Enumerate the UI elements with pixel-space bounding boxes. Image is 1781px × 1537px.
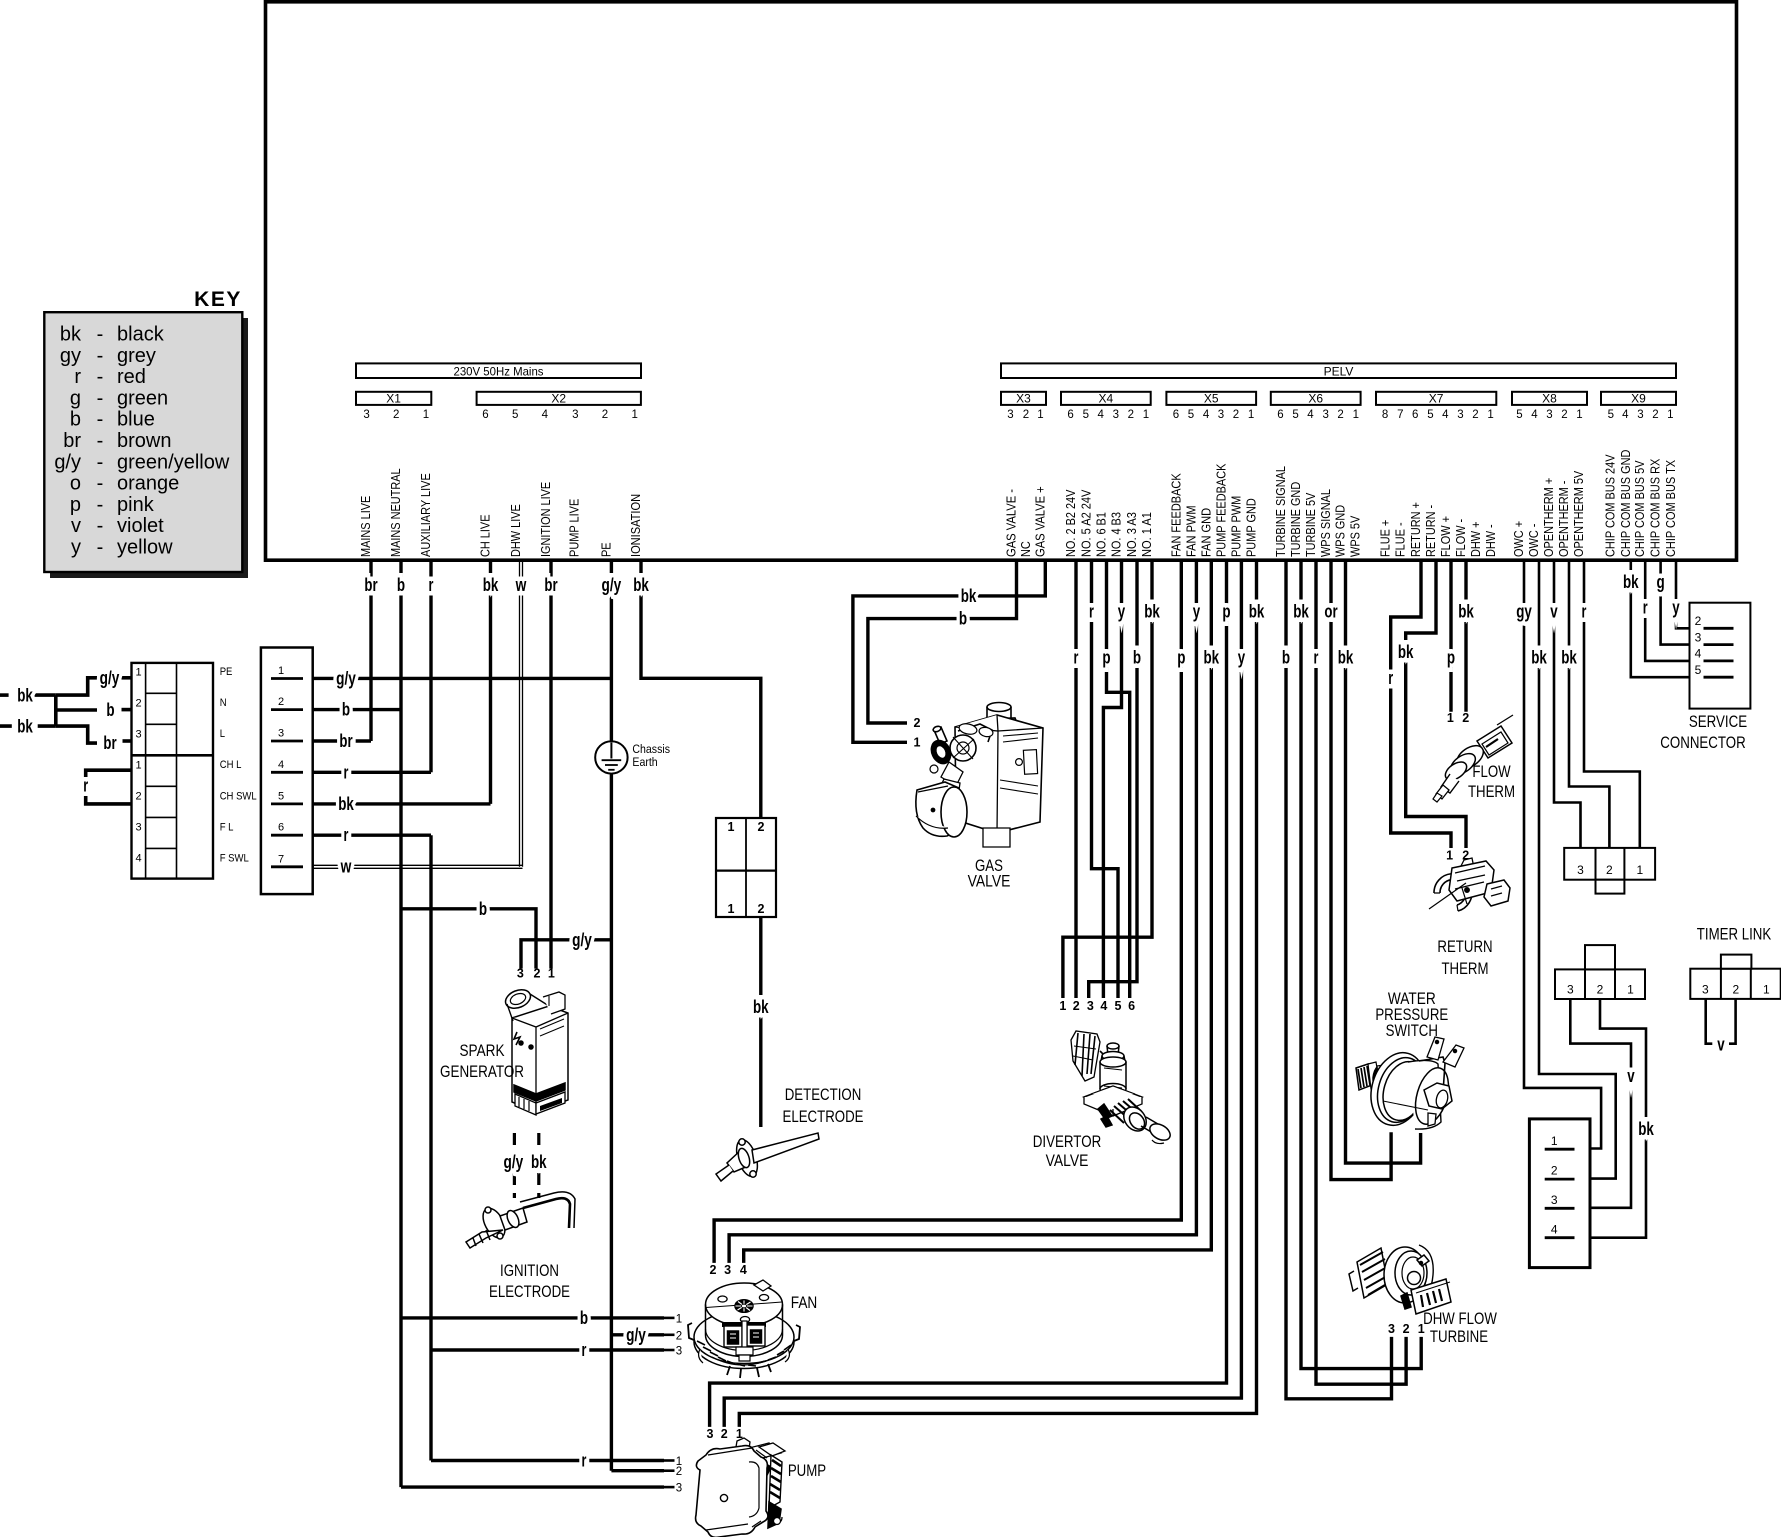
- PCB control board outline: [266, 2, 1737, 560]
- svg-text:3: 3: [1087, 999, 1094, 1013]
- svg-text:1: 1: [1576, 409, 1582, 421]
- wire or WPS SIGNAL: [1331, 560, 1391, 1180]
- svg-text:X1: X1: [386, 392, 401, 406]
- svg-text:5: 5: [1427, 409, 1433, 421]
- svg-text:bk: bk: [1623, 571, 1639, 592]
- svg-text:p: p: [1177, 647, 1185, 668]
- svg-text:5: 5: [512, 409, 518, 421]
- svg-text:2: 2: [1597, 983, 1604, 997]
- svg-text:4: 4: [740, 1263, 747, 1277]
- svg-text:6: 6: [1277, 409, 1283, 421]
- svg-text:6: 6: [1412, 409, 1418, 421]
- detection electrode drawing: [716, 1133, 819, 1181]
- connector X7 box: [1376, 392, 1496, 405]
- svg-text:5: 5: [1695, 663, 1702, 677]
- svg-text:2: 2: [914, 716, 921, 730]
- wire pin6 r to AUXILIARY LIVE lower: [313, 834, 431, 837]
- svg-text:p: p: [1222, 601, 1230, 622]
- svg-text:2: 2: [1551, 1164, 1558, 1178]
- svg-text:SERVICE: SERVICE: [1689, 712, 1747, 731]
- svg-text:FAN PWM: FAN PWM: [1183, 505, 1198, 557]
- svg-text:r: r: [1074, 647, 1079, 668]
- svg-text:bk: bk: [17, 685, 33, 706]
- CH room-stat link wire r: [86, 770, 132, 804]
- svg-text:ELECTRODE: ELECTRODE: [489, 1282, 570, 1301]
- wire p FAN FEEDBACK to fan pin 2: [714, 560, 1181, 1263]
- svg-text:r: r: [83, 775, 88, 796]
- svg-text:2: 2: [1462, 711, 1469, 725]
- svg-text:WPS SIGNAL: WPS SIGNAL: [1318, 489, 1333, 557]
- svg-text:2: 2: [135, 698, 141, 710]
- svg-text:5: 5: [1608, 409, 1614, 421]
- svg-text:CONNECTOR: CONNECTOR: [1660, 733, 1745, 752]
- svg-text:g/y: g/y: [572, 929, 592, 950]
- wire bk CHIP COM BUS GND to service pin 5: [1631, 560, 1704, 677]
- svg-text:y: y: [1672, 597, 1680, 618]
- svg-text:2: 2: [1606, 863, 1613, 877]
- wire bk room stat pin 2 to 4-pin connector pin 4: [1590, 999, 1646, 1238]
- svg-text:NO. 2 B2 24V: NO. 2 B2 24V: [1063, 489, 1078, 557]
- svg-text:THERM: THERM: [1441, 959, 1488, 978]
- wire r AUXILIARY LIVE lower run: [429, 835, 432, 1460]
- svg-text:b: b: [1133, 647, 1141, 668]
- svg-text:blue: blue: [117, 409, 155, 431]
- wire r TURBINE 5V to turbine pin 2: [1316, 560, 1406, 1384]
- detection electrode connector box: [716, 818, 776, 917]
- svg-text:FLUE +: FLUE +: [1378, 520, 1393, 557]
- mains supply cable bk wires junction: [0, 693, 9, 697]
- svg-text:b: b: [479, 898, 487, 919]
- wire pin7 w to DHW LIVE (white, double line): [313, 864, 523, 866]
- svg-text:bk: bk: [1561, 647, 1577, 668]
- svg-text:X6: X6: [1308, 392, 1323, 406]
- svg-text:GAS VALVE +: GAS VALVE +: [1032, 486, 1047, 557]
- svg-text:THERM: THERM: [1468, 782, 1515, 801]
- svg-text:FAN GND: FAN GND: [1198, 508, 1213, 557]
- svg-text:2: 2: [1128, 409, 1134, 421]
- wire g/y PE lower (to spark, fan, pump): [610, 774, 613, 1471]
- svg-text:FAN: FAN: [791, 1293, 818, 1312]
- svg-text:5: 5: [1188, 409, 1194, 421]
- svg-text:FLOW -: FLOW -: [1453, 519, 1468, 557]
- wire p FLOW+ to flow therm pin 1: [1449, 560, 1452, 712]
- svg-text:PE: PE: [220, 666, 233, 678]
- 7-way mains connector: [261, 648, 313, 895]
- svg-text:DETECTION: DETECTION: [785, 1085, 862, 1104]
- svg-text:g: g: [1657, 571, 1665, 592]
- timer link connector: [1690, 969, 1780, 999]
- svg-text:SPARK: SPARK: [460, 1041, 506, 1060]
- wire b NO.3 A3 to divertor pin 3: [1089, 560, 1137, 998]
- connector X6 box: [1271, 392, 1361, 405]
- wire r CHIP COM BUS 5V to service pin 4: [1645, 560, 1703, 661]
- wire b MAINS NEUTRAL (to spark gen, fan, pump): [399, 560, 402, 1487]
- svg-text:IGNITION LIVE: IGNITION LIVE: [538, 482, 553, 557]
- svg-text:4: 4: [1100, 999, 1107, 1013]
- svg-text:1: 1: [728, 902, 735, 916]
- svg-text:g/y: g/y: [626, 1324, 646, 1345]
- svg-text:-: -: [97, 324, 104, 346]
- svg-text:SWITCH: SWITCH: [1386, 1021, 1438, 1040]
- svg-text:br: br: [103, 732, 116, 753]
- svg-text:3: 3: [707, 1427, 714, 1441]
- svg-text:2: 2: [758, 820, 765, 834]
- wire g CHIP COM BUS RX to service pin 3: [1661, 560, 1704, 645]
- svg-text:bk: bk: [1398, 641, 1414, 662]
- svg-text:CHIP COM BUS 5V: CHIP COM BUS 5V: [1632, 460, 1647, 557]
- svg-text:7: 7: [1397, 409, 1403, 421]
- svg-text:4: 4: [135, 853, 141, 865]
- svg-text:NO. 1 A1: NO. 1 A1: [1139, 512, 1154, 557]
- svg-text:1: 1: [1487, 409, 1493, 421]
- svg-text:g/y: g/y: [504, 1151, 524, 1172]
- wire b to fan pin 1: [401, 1316, 664, 1319]
- svg-text:DHW LIVE: DHW LIVE: [508, 504, 523, 557]
- svg-text:1: 1: [548, 967, 555, 981]
- svg-text:CHIP COM BUS 24V: CHIP COM BUS 24V: [1602, 454, 1617, 557]
- svg-text:r: r: [1582, 601, 1587, 622]
- svg-text:bk: bk: [961, 585, 977, 606]
- ignition electrode drawing: [466, 1192, 575, 1248]
- return therm drawing: [1429, 858, 1510, 911]
- svg-text:3: 3: [1702, 983, 1709, 997]
- svg-text:NC: NC: [1018, 541, 1033, 557]
- wire gy OWC+ to 4-pin connector pin 1: [1524, 560, 1601, 1149]
- svg-text:1: 1: [1353, 409, 1359, 421]
- svg-text:v: v: [1717, 1034, 1725, 1055]
- svg-text:1: 1: [278, 665, 284, 677]
- svg-text:bk: bk: [1458, 601, 1474, 622]
- wire y PUMP PWM to pump pin 2: [724, 560, 1241, 1427]
- svg-text:v: v: [1627, 1065, 1635, 1086]
- svg-text:2: 2: [135, 791, 141, 803]
- wire bk FLOW- to flow therm pin 2: [1464, 560, 1467, 712]
- svg-text:g/y: g/y: [100, 667, 120, 688]
- pump left pin stubs and numbers: [664, 1459, 675, 1462]
- svg-text:1: 1: [1763, 983, 1770, 997]
- svg-text:GAS VALVE -: GAS VALVE -: [1004, 489, 1019, 557]
- DHW flow turbine drawing: [1349, 1245, 1451, 1314]
- wire br MAINS LIVE: [369, 560, 372, 741]
- svg-text:DHW -: DHW -: [1483, 524, 1498, 557]
- opentherm plug tab: [1596, 880, 1625, 894]
- svg-text:3: 3: [1322, 409, 1328, 421]
- svg-text:p: p: [70, 494, 81, 516]
- svg-text:2: 2: [1233, 409, 1239, 421]
- 4-pin OWC connector box: [1529, 1119, 1590, 1268]
- wire b to pump pin 3: [401, 1485, 664, 1488]
- svg-text:L: L: [220, 728, 225, 740]
- wire b to spark generator pin 2: [401, 909, 536, 969]
- svg-text:OPENTHERM +: OPENTHERM +: [1541, 478, 1556, 557]
- wire b GAS VALVE - to pin 2: [868, 560, 1017, 723]
- svg-text:8: 8: [1382, 409, 1388, 421]
- svg-text:y: y: [1193, 601, 1201, 622]
- svg-text:1: 1: [1248, 409, 1254, 421]
- svg-text:pink: pink: [117, 494, 155, 516]
- svg-text:2: 2: [710, 1263, 717, 1277]
- svg-text:o: o: [70, 473, 81, 495]
- svg-text:PUMP GND: PUMP GND: [1244, 498, 1259, 557]
- wire to PE terminal g/y: [56, 678, 97, 695]
- svg-text:KEY: KEY: [194, 288, 242, 311]
- wire p PUMP FEEDBACK to pump pin 3: [710, 560, 1227, 1427]
- svg-text:green: green: [117, 387, 168, 409]
- svg-text:3: 3: [1388, 1322, 1395, 1336]
- wire p NO.5 A2 24V to divertor pin 5: [1092, 560, 1119, 998]
- svg-text:5: 5: [278, 790, 284, 802]
- svg-text:2: 2: [602, 409, 608, 421]
- svg-text:TURBINE GND: TURBINE GND: [1288, 482, 1303, 557]
- wire g/y to fan pin 2: [611, 1333, 664, 1336]
- svg-text:RETURN: RETURN: [1437, 937, 1492, 956]
- PELV label box: [1001, 363, 1676, 378]
- svg-text:bk: bk: [1638, 1118, 1654, 1139]
- svg-text:3: 3: [1007, 409, 1013, 421]
- svg-text:b: b: [106, 699, 114, 720]
- timer link jumper v: [1706, 999, 1713, 1044]
- svg-text:br: br: [544, 574, 557, 595]
- svg-text:Earth: Earth: [632, 755, 657, 769]
- svg-text:1: 1: [1667, 409, 1673, 421]
- svg-text:X5: X5: [1204, 392, 1219, 406]
- gas valve drawing: [916, 703, 1043, 848]
- svg-text:bk: bk: [1249, 601, 1265, 622]
- wire pin3 br to MAINS LIVE: [313, 739, 371, 742]
- svg-text:CHIP COM BUS RX: CHIP COM BUS RX: [1648, 458, 1663, 557]
- water pressure switch drawing: [1356, 1037, 1464, 1132]
- svg-text:b: b: [397, 574, 405, 595]
- svg-text:6: 6: [1128, 999, 1135, 1013]
- wire bk TURBINE GND to turbine pin 1: [1301, 560, 1421, 1369]
- svg-text:2: 2: [1337, 409, 1343, 421]
- svg-text:VALVE: VALVE: [968, 872, 1011, 891]
- wire g/y to spark generator pin 3: [521, 940, 611, 969]
- svg-text:r: r: [1089, 601, 1094, 622]
- svg-text:4: 4: [1307, 409, 1314, 421]
- svg-text:1: 1: [135, 667, 141, 679]
- svg-text:or: or: [1324, 601, 1337, 622]
- wire r to pump pin 1: [431, 1459, 664, 1462]
- svg-text:br: br: [339, 730, 352, 751]
- svg-text:X7: X7: [1429, 392, 1444, 406]
- svg-text:2: 2: [758, 902, 765, 916]
- svg-text:1: 1: [1636, 863, 1643, 877]
- svg-text:violet: violet: [117, 515, 164, 537]
- svg-text:3: 3: [1577, 863, 1584, 877]
- svg-text:1: 1: [423, 409, 429, 421]
- svg-text:4: 4: [1695, 647, 1702, 661]
- svg-text:X3: X3: [1016, 392, 1031, 406]
- svg-text:WPS GND: WPS GND: [1333, 505, 1348, 557]
- svg-text:4: 4: [1203, 409, 1210, 421]
- svg-text:PE: PE: [598, 542, 613, 557]
- wire y CHIP COM BUS TX to service pin 2: [1676, 560, 1704, 628]
- svg-text:grey: grey: [117, 345, 156, 367]
- svg-text:AUXILIARY LIVE: AUXILIARY LIVE: [418, 473, 433, 557]
- svg-text:2: 2: [721, 1427, 728, 1441]
- svg-text:2: 2: [1403, 1322, 1410, 1336]
- wire br IGNITION LIVE to spark pin 1: [549, 560, 552, 969]
- svg-text:CH L: CH L: [220, 759, 242, 771]
- svg-text:r: r: [344, 761, 349, 782]
- svg-text:w: w: [515, 574, 527, 595]
- svg-text:PUMP PWM: PUMP PWM: [1228, 496, 1243, 557]
- svg-text:3: 3: [572, 409, 578, 421]
- svg-text:TIMER LINK: TIMER LINK: [1697, 925, 1772, 944]
- svg-text:ELECTRODE: ELECTRODE: [783, 1107, 864, 1126]
- wire y FAN PWM to fan pin 3: [729, 560, 1196, 1263]
- wire y NO.4 B3 to divertor pin 4: [1103, 560, 1121, 998]
- svg-text:1: 1: [914, 736, 921, 750]
- svg-text:6: 6: [1173, 409, 1179, 421]
- svg-text:r: r: [344, 824, 349, 845]
- wire r OPENTHERM 5V to opentherm plug pin 1: [1584, 560, 1640, 848]
- svg-text:1: 1: [631, 409, 637, 421]
- svg-text:3: 3: [135, 729, 141, 741]
- KEY box shadow: [50, 318, 248, 578]
- svg-text:OWC +: OWC +: [1511, 521, 1526, 557]
- svg-text:2: 2: [1561, 409, 1567, 421]
- svg-text:bk: bk: [1293, 601, 1309, 622]
- svg-text:DHW +: DHW +: [1468, 522, 1483, 558]
- svg-text:X4: X4: [1099, 392, 1114, 406]
- wire pin5 bk to CH LIVE: [313, 802, 491, 805]
- svg-text:3: 3: [676, 1483, 682, 1495]
- svg-text:bk: bk: [1204, 647, 1220, 668]
- svg-text:r: r: [74, 366, 81, 388]
- svg-text:-: -: [97, 366, 104, 388]
- svg-text:g/y: g/y: [54, 451, 81, 473]
- svg-text:bk: bk: [338, 793, 354, 814]
- svg-text:4: 4: [1551, 1223, 1558, 1237]
- svg-text:gy: gy: [60, 345, 81, 367]
- 230V 50Hz Mains label box: [356, 363, 641, 378]
- wire bk CH LIVE: [489, 560, 492, 804]
- svg-text:bk: bk: [483, 574, 499, 595]
- svg-text:X2: X2: [551, 392, 566, 406]
- svg-text:brown: brown: [117, 430, 171, 452]
- svg-text:p: p: [1102, 647, 1110, 668]
- svg-text:IONISATION: IONISATION: [628, 494, 643, 557]
- wire NO.6 B1 to divertor pin 6: [1107, 560, 1130, 998]
- svg-text:gy: gy: [1516, 601, 1532, 622]
- svg-text:1: 1: [1551, 1134, 1558, 1148]
- svg-text:FLOW +: FLOW +: [1438, 516, 1453, 557]
- svg-text:black: black: [117, 324, 165, 346]
- svg-text:yellow: yellow: [117, 537, 173, 559]
- svg-text:bk: bk: [1338, 647, 1354, 668]
- svg-text:DHW FLOW: DHW FLOW: [1423, 1309, 1497, 1328]
- svg-text:IGNITION: IGNITION: [500, 1261, 559, 1280]
- svg-text:5: 5: [1516, 409, 1522, 421]
- svg-text:4: 4: [542, 409, 549, 421]
- svg-text:r: r: [582, 1450, 587, 1471]
- wire w DHW LIVE (double line): [519, 560, 521, 867]
- svg-text:green/yellow: green/yellow: [117, 451, 230, 473]
- svg-text:g/y: g/y: [602, 574, 622, 595]
- svg-text:b: b: [580, 1307, 588, 1328]
- wire pin1 g/y to PE: [313, 677, 612, 680]
- svg-text:6: 6: [278, 822, 284, 834]
- connector X3 box: [1001, 392, 1046, 405]
- connector X8 box: [1512, 392, 1587, 405]
- divertor valve drawing: [1071, 1031, 1173, 1144]
- svg-text:3: 3: [1695, 630, 1702, 644]
- svg-text:3: 3: [278, 728, 284, 740]
- svg-text:WPS 5V: WPS 5V: [1348, 515, 1363, 557]
- svg-text:v: v: [71, 515, 81, 537]
- svg-text:4: 4: [1531, 409, 1538, 421]
- svg-text:6: 6: [1067, 409, 1073, 421]
- svg-text:-: -: [97, 387, 104, 409]
- svg-text:3: 3: [1567, 983, 1574, 997]
- svg-text:4: 4: [1097, 409, 1104, 421]
- wire bk OPENTHERM- to opentherm plug pin 2: [1569, 560, 1609, 848]
- svg-text:r: r: [1643, 597, 1648, 618]
- wire bk OWC- to 4-pin connector pin 2: [1539, 560, 1616, 1179]
- svg-text:y: y: [1238, 647, 1246, 668]
- room stat connector tab: [1585, 945, 1615, 969]
- svg-text:NO. 4 B3: NO. 4 B3: [1109, 512, 1124, 557]
- connector X5 box: [1166, 392, 1256, 405]
- svg-text:red: red: [117, 366, 146, 388]
- svg-text:CHIP COM BUS GND: CHIP COM BUS GND: [1618, 450, 1633, 557]
- svg-text:3: 3: [1218, 409, 1224, 421]
- wire b TURBINE SIGNAL to turbine pin 3: [1286, 560, 1392, 1399]
- wire bk IONISATION to detection electrode: [641, 560, 761, 818]
- svg-text:p: p: [1447, 647, 1455, 668]
- svg-text:-: -: [97, 451, 104, 473]
- wire r RETURN+ to return therm pin 1: [1391, 560, 1451, 848]
- mains terminal block: [132, 663, 214, 879]
- svg-text:PUMP: PUMP: [788, 1461, 826, 1480]
- svg-text:r: r: [582, 1339, 587, 1360]
- wire v room stat pin 3 to 4-pin connector pin 3: [1570, 999, 1631, 1208]
- svg-text:3: 3: [1113, 409, 1119, 421]
- svg-text:4: 4: [1442, 409, 1449, 421]
- svg-text:FLOW: FLOW: [1472, 762, 1510, 781]
- wire g/y to pump pin 2: [611, 1469, 664, 1472]
- KEY box: [44, 312, 242, 572]
- svg-text:2: 2: [1073, 999, 1080, 1013]
- svg-text:TURBINE 5V: TURBINE 5V: [1303, 492, 1318, 557]
- wire bk WPS GND: [1346, 560, 1421, 1163]
- wire to N terminal b: [56, 708, 97, 712]
- svg-text:NO. 3 A3: NO. 3 A3: [1124, 512, 1139, 557]
- svg-text:X9: X9: [1631, 392, 1646, 406]
- wire bk RETURN- to return therm pin 2: [1406, 560, 1466, 848]
- svg-text:PUMP FEEDBACK: PUMP FEEDBACK: [1214, 463, 1229, 557]
- HT lead g/y spark to ignition electrode: [513, 1133, 516, 1198]
- wire to L terminal br: [56, 726, 97, 743]
- svg-text:F SWL: F SWL: [220, 852, 249, 864]
- svg-text:MAINS NEUTRAL: MAINS NEUTRAL: [388, 468, 403, 557]
- svg-text:orange: orange: [117, 473, 179, 495]
- svg-text:2: 2: [676, 1466, 682, 1478]
- svg-text:br: br: [364, 574, 377, 595]
- svg-text:FLUE -: FLUE -: [1393, 522, 1408, 557]
- svg-text:bk: bk: [1531, 647, 1547, 668]
- connector X9 box: [1601, 392, 1676, 405]
- terminal block internal lines: [145, 663, 147, 879]
- svg-text:-: -: [97, 430, 104, 452]
- svg-text:v: v: [1550, 601, 1558, 622]
- svg-text:3: 3: [1637, 409, 1643, 421]
- svg-text:CHIP COM BUS TX: CHIP COM BUS TX: [1663, 460, 1678, 557]
- svg-text:1: 1: [1446, 849, 1453, 863]
- svg-text:MAINS LIVE: MAINS LIVE: [358, 495, 373, 557]
